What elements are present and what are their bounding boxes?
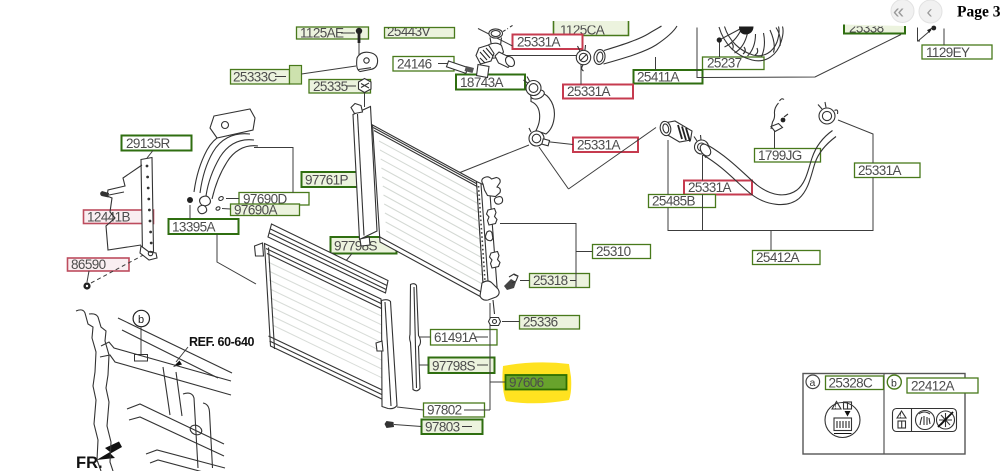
svg-text:97798S: 97798S	[334, 239, 378, 254]
label box 13395A	[169, 219, 239, 235]
label box 25336	[502, 315, 580, 330]
clamp 25331A mid	[576, 45, 590, 71]
legend icon a	[825, 402, 860, 438]
label box 25412A	[753, 250, 821, 265]
label box 86590 red	[68, 257, 130, 282]
lower hose 25412A	[698, 131, 836, 205]
label box 1125AE	[297, 26, 369, 41]
svg-text:25237: 25237	[707, 56, 742, 71]
radiator left tank	[351, 104, 377, 247]
leader 25331A red 4	[702, 155, 704, 231]
svg-text:97606: 97606	[509, 375, 544, 390]
sensor 1799JG	[771, 99, 788, 132]
leader 25331A red1 / clamp	[478, 29, 576, 56]
label box 25485B	[649, 194, 716, 209]
water inlet pipe 25485B	[659, 120, 692, 142]
svg-text:!: !	[835, 403, 837, 410]
label box 97798S upper	[331, 237, 397, 262]
leader 13395A	[190, 205, 256, 284]
svg-text:Page 3/: Page 3/	[957, 4, 1000, 21]
clamp on elbow	[524, 77, 542, 96]
label box 25333C	[231, 66, 357, 85]
svg-text:29135R: 29135R	[126, 136, 171, 151]
svg-text:24146: 24146	[397, 57, 432, 72]
radiator bottom mount and stud	[480, 281, 499, 314]
sensor 24146	[446, 61, 474, 74]
bolt 1125AE	[356, 28, 362, 55]
legend circle a	[806, 375, 820, 389]
leader lines 25310 bracket	[500, 224, 593, 288]
thermostat housing assembly	[476, 25, 516, 69]
nav button prev	[919, 0, 942, 23]
receiver drier 97802	[376, 300, 397, 409]
legend circle b	[887, 375, 901, 389]
highlight 97606 yellow marker	[502, 362, 571, 403]
svg-text:18743A: 18743A	[460, 75, 504, 90]
condenser core	[255, 243, 388, 402]
svg-text:FR.: FR.	[76, 454, 103, 471]
svg-text:97798S: 97798S	[432, 359, 476, 374]
svg-text:25331A: 25331A	[577, 138, 621, 153]
label box 97606 selected	[490, 375, 567, 390]
label box 97761P	[302, 172, 369, 188]
svg-text:22412A: 22412A	[911, 379, 955, 394]
leader 97606 vertical	[489, 303, 491, 410]
svg-text:61491A: 61491A	[434, 330, 478, 345]
svg-text:25411A: 25411A	[637, 70, 680, 85]
page number text	[957, 4, 1000, 21]
hose 25411A	[593, 26, 677, 65]
lower fitting under elbow	[529, 128, 550, 146]
screw 25318	[504, 274, 518, 290]
label box 25443V	[385, 24, 455, 39]
air guard strip upper (97798S)	[268, 224, 388, 293]
plug 97803	[385, 421, 395, 428]
svg-text:1125AE: 1125AE	[300, 26, 344, 41]
clamp top right	[818, 102, 838, 124]
svg-text:REF. 60-640: REF. 60-640	[189, 335, 255, 349]
svg-text:25328C: 25328C	[829, 376, 874, 391]
bolt 86590	[83, 282, 90, 289]
label box 29135R	[122, 136, 192, 159]
svg-text:25485B: 25485B	[652, 194, 696, 209]
label box 25318	[520, 273, 590, 288]
legend table	[803, 374, 965, 455]
svg-text:a: a	[810, 377, 816, 389]
svg-text:97802: 97802	[427, 403, 462, 418]
label box 25237	[703, 56, 765, 71]
svg-text:97690A: 97690A	[234, 203, 278, 218]
cap 25335	[359, 79, 372, 108]
front end module	[76, 310, 232, 471]
label box 1799JG	[755, 148, 821, 163]
label box 24146	[393, 57, 454, 72]
label box 25331A green right	[855, 163, 921, 178]
svg-text:25335: 25335	[313, 79, 348, 94]
ac pipes 13395A	[187, 109, 258, 214]
nav button back	[891, 0, 914, 23]
svg-text:12441B: 12441B	[87, 210, 131, 225]
label box 25335	[309, 79, 371, 94]
svg-text:1129EY: 1129EY	[926, 45, 970, 60]
label box 1125CA (top-cut)	[554, 21, 629, 38]
label box 97690A	[222, 203, 300, 218]
label box 25331A red 2	[563, 84, 633, 99]
label box 1129EY	[922, 45, 992, 60]
svg-text:b: b	[891, 377, 897, 389]
leader V lines to radiator inlet	[460, 128, 656, 190]
svg-text:97803: 97803	[425, 420, 460, 435]
svg-text:25318: 25318	[533, 273, 568, 288]
label box 25338 (top-cut)	[844, 21, 905, 36]
FR. text and arrow	[76, 442, 122, 471]
leader 97690 bracket	[254, 148, 293, 193]
leader 1129EY	[918, 26, 945, 45]
upper hose elbow	[530, 88, 555, 134]
label box 25331A red 3	[546, 138, 638, 153]
leader 25411A / 25338 bracket	[656, 28, 902, 78]
svg-text:97761P: 97761P	[305, 173, 349, 188]
svg-text:‹: ‹	[927, 2, 933, 22]
leader 1799JG	[774, 128, 776, 149]
circle b callout	[133, 310, 149, 361]
label box 97798S lower	[419, 358, 495, 374]
svg-text:1799JG: 1799JG	[758, 148, 802, 163]
legend label 25328C	[826, 376, 884, 391]
leader 25331A green right	[838, 120, 873, 163]
label box 61491A	[419, 330, 497, 346]
fan blade 61491A	[410, 284, 421, 391]
leader 25485B clamp	[667, 140, 669, 195]
leader 86590 dashed	[91, 252, 149, 283]
radiator right tank	[477, 182, 498, 299]
radiator inlet top bracket	[482, 177, 503, 204]
svg-text:25331A: 25331A	[567, 84, 611, 99]
REF. 60-640 text	[173, 335, 255, 367]
radiator core	[373, 125, 487, 299]
label box 25331A red 4	[684, 180, 752, 195]
label box 25310	[593, 244, 651, 259]
svg-text:13395A: 13395A	[172, 220, 216, 235]
svg-text:86590: 86590	[71, 257, 106, 272]
svg-text:b: b	[138, 314, 144, 326]
label box 12441B red	[84, 210, 154, 225]
svg-text:25310: 25310	[596, 244, 631, 259]
label box 97690D	[226, 192, 309, 207]
legend icon b	[893, 409, 957, 432]
leader 25331A red2	[580, 65, 582, 85]
radiator clips right side	[485, 209, 500, 269]
legend label 22412A	[907, 378, 978, 394]
label box 25411A	[634, 70, 703, 85]
leader lines 25412A bracket	[668, 178, 873, 251]
label box 97802	[397, 403, 490, 418]
svg-text:25412A: 25412A	[756, 250, 800, 265]
svg-text:25336: 25336	[523, 315, 558, 330]
label box 18743A	[456, 75, 525, 91]
label box 97803	[394, 420, 483, 435]
svg-text:!: !	[900, 412, 902, 419]
shroud bracket 29135R	[100, 158, 157, 261]
label box 25331A red 1	[513, 35, 583, 50]
leader 25237	[719, 43, 721, 58]
svg-text:25333C: 25333C	[233, 70, 278, 85]
svg-text:25331A: 25331A	[858, 163, 902, 178]
gasket part 18743A	[477, 65, 490, 78]
svg-text:«: «	[893, 1, 904, 23]
svg-text:25331A: 25331A	[517, 35, 561, 50]
drain plug 25336	[489, 318, 501, 326]
clamp near 25485B	[694, 135, 709, 158]
bracket 25333C target	[357, 52, 378, 71]
fan 25237	[717, 27, 783, 61]
